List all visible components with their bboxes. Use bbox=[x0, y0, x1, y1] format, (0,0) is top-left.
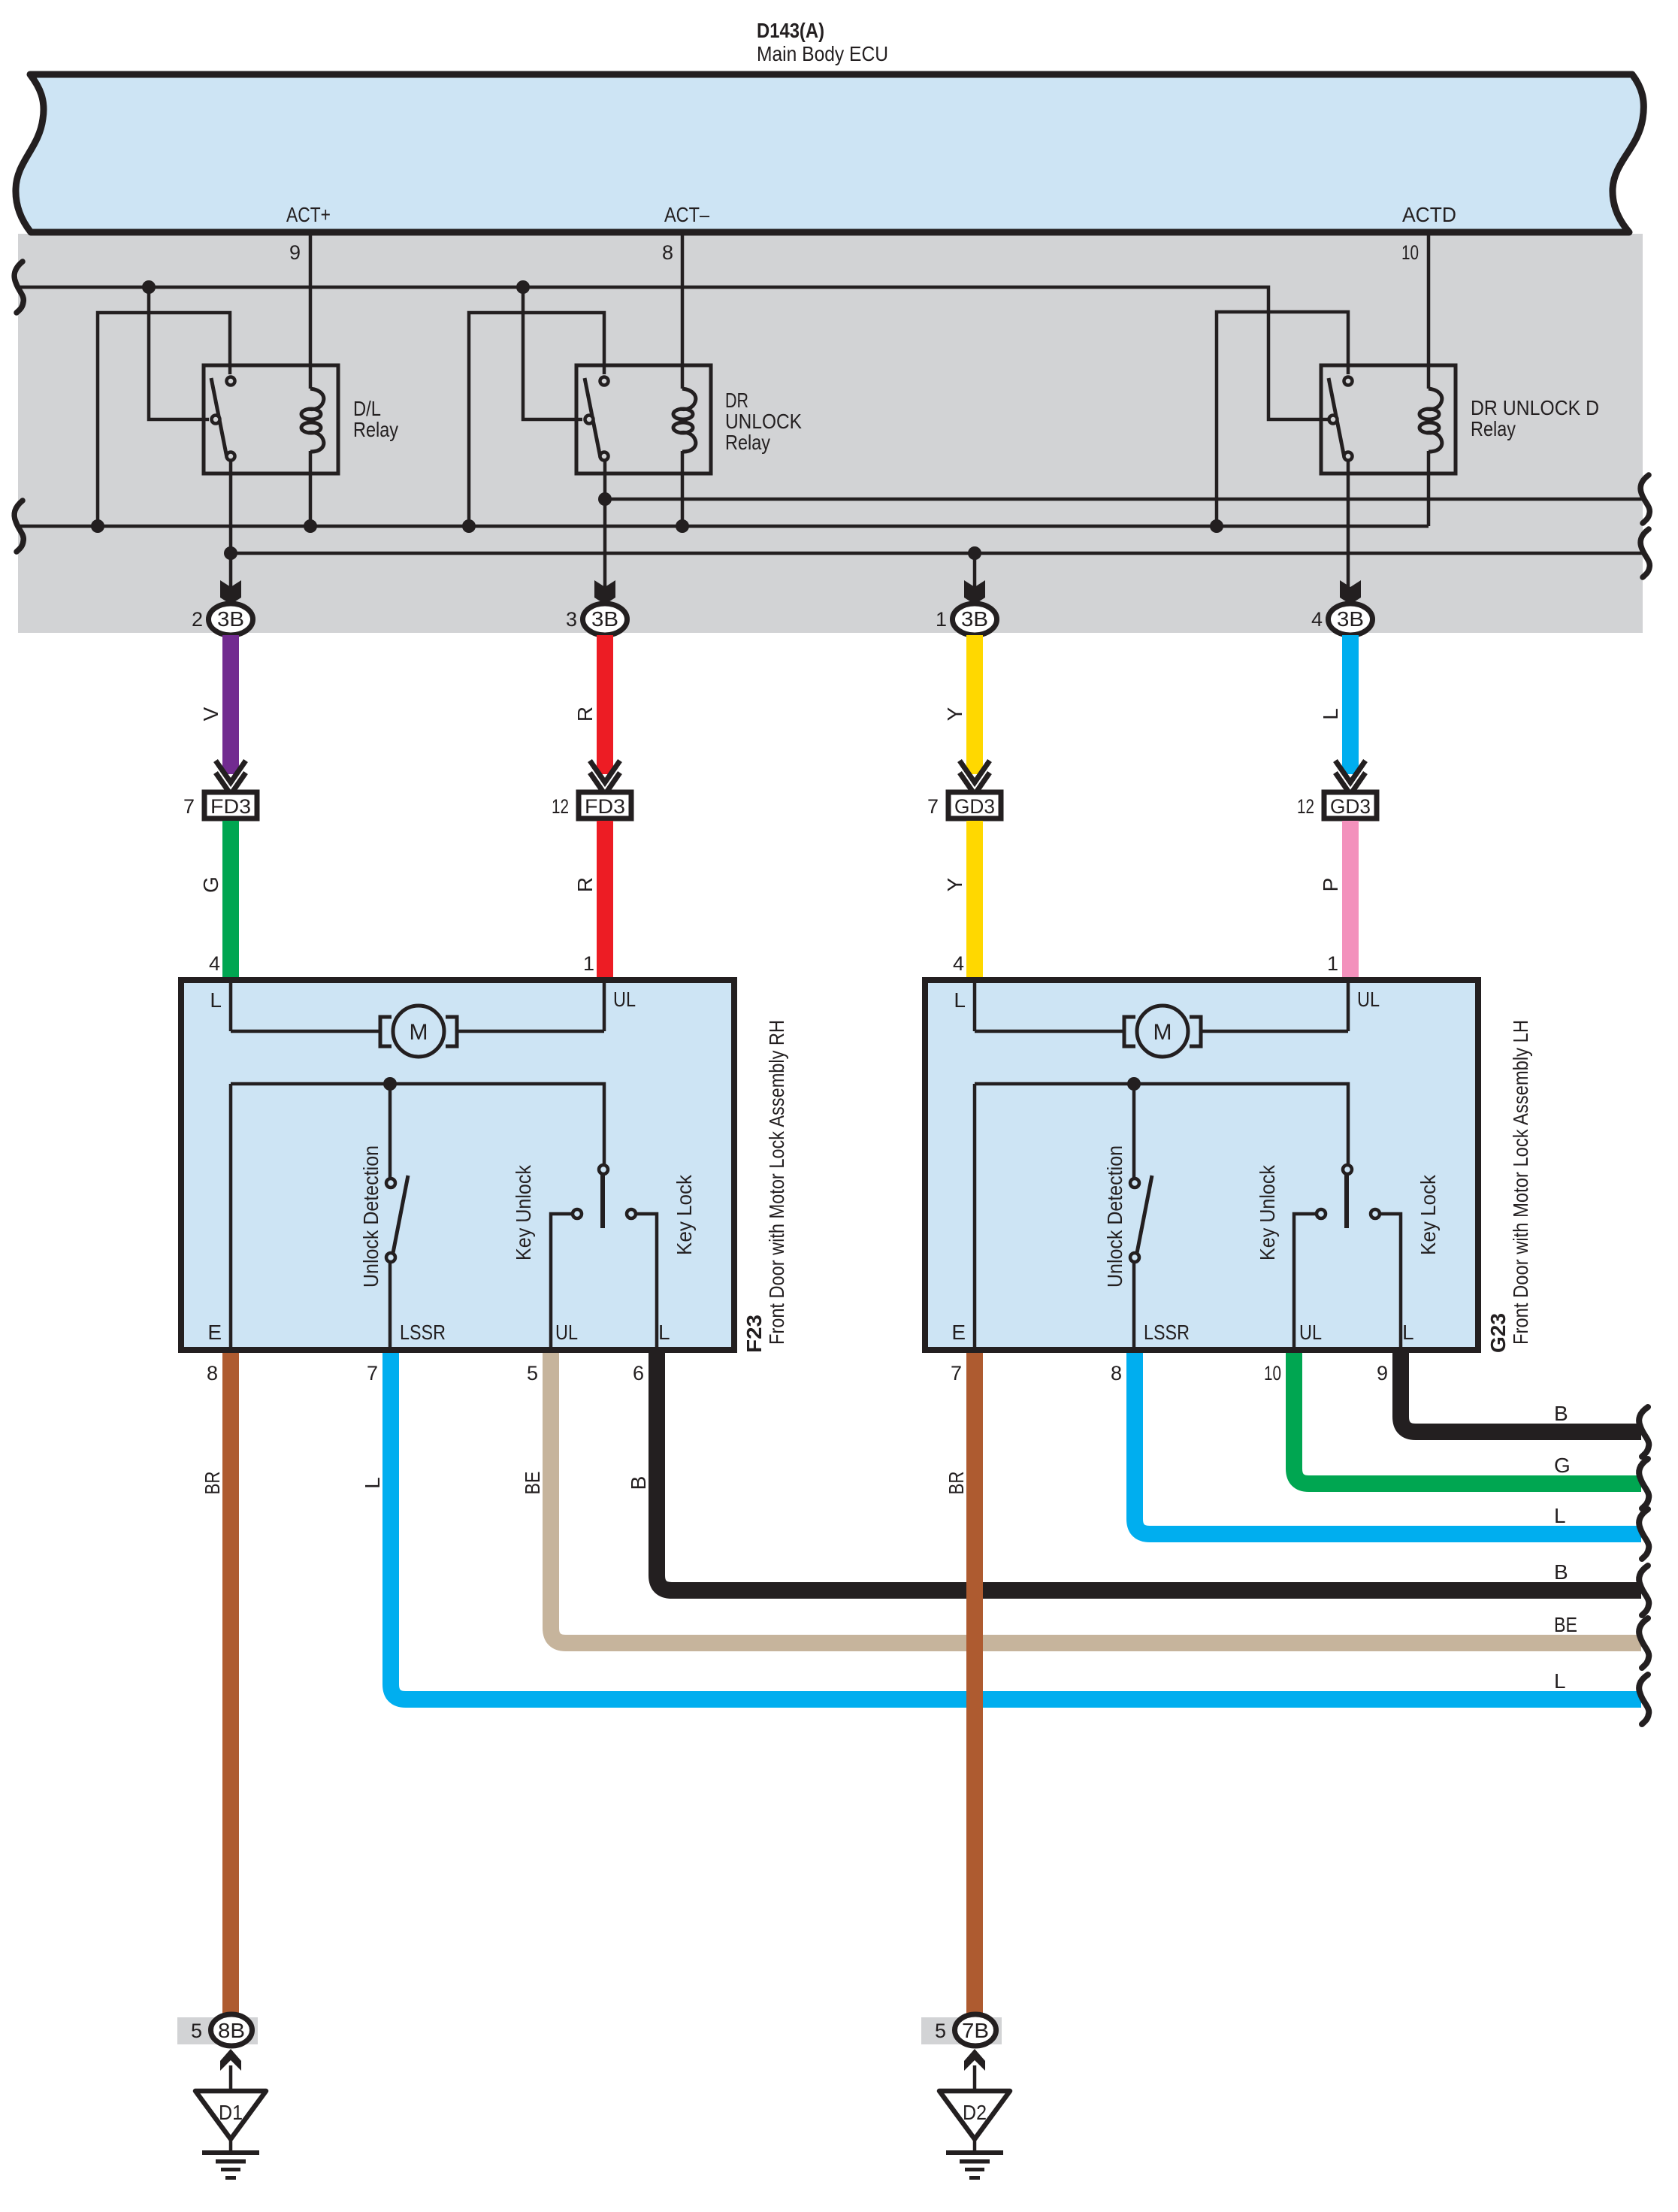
relay DR UNLOCK D bottom contact bbox=[1344, 452, 1353, 461]
svg-text:ACT+: ACT+ bbox=[286, 203, 331, 226]
svg-text:FD3: FD3 bbox=[585, 795, 625, 818]
wire ACT- pin8 to DR UNLOCK relay coil bbox=[681, 234, 685, 389]
connector 12-GD3 bbox=[1297, 761, 1377, 819]
ground bars bbox=[946, 2150, 1003, 2155]
svg-text:8B: 8B bbox=[218, 2019, 245, 2042]
svg-text:BE: BE bbox=[521, 1472, 544, 1495]
wire BR brown F23 pin8 to D1 bbox=[222, 1353, 239, 2014]
svg-text:Key Lock: Key Lock bbox=[1416, 1174, 1440, 1255]
relay DR UNLOCK top contact bbox=[600, 377, 609, 386]
F23 key switch pivot bbox=[599, 1165, 608, 1174]
svg-text:Key Lock: Key Lock bbox=[673, 1174, 696, 1255]
svg-text:5: 5 bbox=[527, 1362, 538, 1384]
svg-text:7: 7 bbox=[951, 1362, 962, 1384]
svg-text:2: 2 bbox=[192, 608, 203, 631]
relay D/L switch arm bbox=[211, 378, 227, 458]
svg-text:10: 10 bbox=[1401, 241, 1419, 264]
wire BE beige F23 pin5 bbox=[551, 1353, 1641, 1643]
wire bus1 bbox=[18, 525, 1429, 528]
relay DR UNLOCK D top contact bbox=[1344, 377, 1353, 386]
arrow chevrons into 3B bbox=[220, 580, 241, 604]
wire D/L top contact loop bbox=[98, 313, 230, 526]
svg-text:BR: BR bbox=[945, 1472, 968, 1495]
svg-text:D2: D2 bbox=[963, 2101, 987, 2124]
relay DR UNLOCK box bbox=[576, 365, 711, 474]
svg-text:V: V bbox=[199, 707, 222, 721]
relay DR UNLOCK coil bbox=[673, 389, 696, 452]
relay DR UNLOCK D switch arm bbox=[1329, 378, 1344, 458]
svg-text:10: 10 bbox=[1264, 1362, 1281, 1384]
svg-text:8: 8 bbox=[1111, 1362, 1122, 1384]
svg-text:R: R bbox=[573, 877, 597, 892]
F23 junction dot switch bus bbox=[383, 1077, 397, 1091]
ECU D143(A) Main Body ECU box bbox=[16, 74, 1643, 232]
connector 2-3B group bbox=[192, 580, 253, 635]
svg-text:Y: Y bbox=[943, 877, 966, 891]
ground stem bbox=[229, 2139, 233, 2150]
up arrow chevron bbox=[220, 2049, 241, 2071]
break squiggles at right wire ends bbox=[1639, 1407, 1649, 1724]
svg-text:Y: Y bbox=[943, 707, 966, 721]
relay DR UNLOCK D mid contact bbox=[1329, 416, 1338, 424]
svg-text:L: L bbox=[1554, 1669, 1566, 1693]
svg-text:Main Body ECU: Main Body ECU bbox=[757, 42, 888, 65]
break squiggle right bus2 bbox=[1640, 529, 1649, 577]
relay D/L mid contact bbox=[212, 416, 220, 424]
svg-text:7B: 7B bbox=[962, 2019, 989, 2042]
relay DR UNLOCK bottom contact bbox=[600, 452, 609, 461]
junction node on top bus at DR UNLOCK bbox=[516, 280, 530, 294]
svg-text:1: 1 bbox=[1327, 952, 1338, 975]
junction node bus1 x413 bbox=[304, 519, 317, 533]
wire DR UNLOCK mid contact feed bbox=[523, 287, 582, 419]
F23 terminal UL stub bbox=[603, 983, 606, 1031]
break squiggle right y664 bbox=[1640, 475, 1649, 523]
F23 E column bbox=[229, 1084, 233, 1350]
connector 7-FD3 bbox=[183, 761, 257, 819]
svg-text:L: L bbox=[1402, 1321, 1414, 1344]
svg-text:G23: G23 bbox=[1486, 1313, 1510, 1353]
svg-text:UL: UL bbox=[555, 1321, 578, 1344]
svg-text:8: 8 bbox=[207, 1362, 218, 1384]
G23 motor wire right bbox=[1201, 1030, 1348, 1033]
ground D1 group bbox=[177, 2014, 266, 2180]
svg-text:7: 7 bbox=[927, 795, 939, 818]
svg-text:8: 8 bbox=[662, 241, 673, 264]
wire P pink GD3 to G23 bbox=[1342, 821, 1359, 977]
svg-text:9: 9 bbox=[289, 241, 301, 264]
junction node on top bus at D/L bbox=[142, 280, 156, 294]
svg-text:GD3: GD3 bbox=[1330, 795, 1371, 818]
wire DR UNLOCK switch output drop bbox=[603, 458, 607, 588]
svg-text:3: 3 bbox=[566, 608, 577, 631]
svg-text:BR: BR bbox=[201, 1472, 224, 1495]
svg-text:7: 7 bbox=[183, 795, 195, 818]
svg-text:L: L bbox=[361, 1477, 384, 1489]
G23 terminal UL stub bbox=[1347, 983, 1350, 1031]
svg-text:Unlock Detection: Unlock Detection bbox=[359, 1145, 382, 1288]
F23 terminal L stub bbox=[229, 983, 233, 1031]
svg-text:D/L: D/L bbox=[353, 397, 381, 420]
relay DR UNLOCK D box bbox=[1321, 365, 1456, 474]
wire DR UNLOCK D switch output drop bbox=[1347, 458, 1350, 588]
gray harness band bbox=[18, 234, 1643, 633]
svg-text:Key Unlock: Key Unlock bbox=[1256, 1164, 1279, 1260]
relay DR UNLOCK D coil bbox=[1419, 389, 1442, 452]
ground bars bbox=[202, 2150, 259, 2155]
relay D/L top contact bbox=[227, 377, 235, 386]
svg-text:L: L bbox=[1554, 1504, 1566, 1527]
F23 unlock detection switch bbox=[389, 1084, 392, 1178]
svg-text:ACTD: ACTD bbox=[1402, 203, 1456, 226]
wire G green FD3 to F23 bbox=[222, 821, 239, 977]
oval 3B bbox=[209, 604, 253, 635]
wire top bus to DR UNLOCK D mid contact bbox=[18, 287, 1328, 419]
wire ACT+ pin9 to D/L relay coil bbox=[309, 234, 313, 389]
wire to ground triangle bbox=[229, 2065, 233, 2091]
wire B black F23 pin6 bbox=[657, 1353, 1641, 1590]
svg-text:Relay: Relay bbox=[353, 418, 398, 441]
svg-text:4: 4 bbox=[1311, 608, 1323, 631]
junction node bus1 x130 bbox=[91, 519, 104, 533]
F23 motor wire left bbox=[231, 1030, 380, 1033]
G23 junction dot switch bus bbox=[1127, 1077, 1141, 1091]
connector 4-3B group bbox=[1311, 580, 1373, 635]
wire DR UNLOCK top contact loop bbox=[469, 313, 604, 526]
wire ACTD pin10 to DR UNLOCK D relay coil bbox=[1427, 234, 1431, 389]
svg-text:Front Door with Motor Lock Ass: Front Door with Motor Lock Assembly RH bbox=[765, 1020, 788, 1345]
oval 8B bbox=[211, 2014, 252, 2046]
svg-text:D143(A): D143(A) bbox=[757, 19, 824, 42]
svg-text:12: 12 bbox=[1297, 795, 1314, 818]
svg-text:L: L bbox=[954, 988, 966, 1012]
svg-text:9: 9 bbox=[1377, 1362, 1388, 1384]
junction node bus2 start bbox=[224, 546, 237, 560]
svg-text:L: L bbox=[1319, 708, 1342, 720]
wire Y yellow 3B to GD3 bbox=[966, 635, 983, 774]
svg-text:4: 4 bbox=[209, 952, 220, 975]
svg-text:FD3: FD3 bbox=[210, 795, 251, 818]
wire D/L mid contact feed bbox=[149, 287, 209, 419]
svg-text:UNLOCK: UNLOCK bbox=[725, 410, 802, 433]
svg-text:R: R bbox=[573, 707, 597, 722]
svg-text:LSSR: LSSR bbox=[400, 1321, 446, 1344]
G23 motor wire left bbox=[975, 1030, 1124, 1033]
svg-text:5: 5 bbox=[191, 2020, 202, 2042]
svg-text:L: L bbox=[210, 988, 222, 1012]
svg-text:UL: UL bbox=[1357, 988, 1380, 1011]
F23 Front Door with Motor Lock Assembly RH box bbox=[181, 980, 734, 1350]
F23 key unlock contact bbox=[573, 1209, 582, 1218]
G23 E column bbox=[973, 1084, 977, 1350]
svg-text:BE: BE bbox=[1554, 1613, 1577, 1636]
wire D/L switch output drop bbox=[229, 458, 233, 588]
wire BR brown G23 pin7 to D2 bbox=[966, 1353, 983, 2014]
relay D/L bottom contact bbox=[227, 452, 235, 461]
wire L cyan G23 pin8 bbox=[1135, 1353, 1641, 1534]
wire B black G23 pin9 bbox=[1401, 1353, 1641, 1432]
wire L cyan 3B to GD3 bbox=[1342, 635, 1359, 774]
relay D/L box bbox=[204, 365, 338, 474]
svg-text:G: G bbox=[199, 876, 222, 893]
G23 key unlock contact bbox=[1317, 1209, 1326, 1218]
svg-text:Front Door with Motor Lock Ass: Front Door with Motor Lock Assembly LH bbox=[1509, 1020, 1532, 1345]
junction node bus2 x1297 bbox=[968, 546, 981, 560]
triangle D2 bbox=[939, 2091, 1010, 2139]
svg-text:Relay: Relay bbox=[725, 431, 770, 454]
svg-text:1: 1 bbox=[583, 952, 594, 975]
G23 unlock detection switch bbox=[1132, 1084, 1136, 1178]
junction node bus1 x1619 bbox=[1210, 519, 1223, 533]
F23 motor wire right bbox=[457, 1030, 604, 1033]
svg-text:4: 4 bbox=[953, 952, 964, 975]
triangle D1 bbox=[195, 2091, 266, 2139]
svg-text:ACT–: ACT– bbox=[664, 203, 709, 226]
svg-text:UL: UL bbox=[613, 988, 636, 1011]
wire L cyan F23 pin7 bbox=[391, 1353, 1641, 1699]
svg-text:LSSR: LSSR bbox=[1144, 1321, 1190, 1344]
break squiggle left top bus bbox=[14, 262, 1649, 577]
svg-text:Unlock Detection: Unlock Detection bbox=[1103, 1145, 1126, 1288]
gray highlight 7B bbox=[921, 2017, 1002, 2044]
svg-text:3B: 3B bbox=[1337, 607, 1364, 631]
svg-text:M: M bbox=[410, 1020, 428, 1045]
wire G green G23 pin10 bbox=[1294, 1353, 1641, 1484]
G23 terminal L stub bbox=[973, 983, 977, 1031]
wire bus2 bbox=[231, 552, 1643, 555]
svg-text:L: L bbox=[658, 1321, 670, 1344]
wire R red 3B to FD3 bbox=[597, 635, 613, 774]
svg-text:7: 7 bbox=[367, 1362, 378, 1384]
relay DR UNLOCK switch arm bbox=[585, 378, 600, 458]
svg-text:UL: UL bbox=[1299, 1321, 1322, 1344]
wire DR UNLOCK coil bottom to bus1 bbox=[681, 451, 685, 526]
svg-text:GD3: GD3 bbox=[954, 795, 995, 818]
svg-text:E: E bbox=[207, 1321, 222, 1344]
ground D2 group bbox=[921, 2014, 1010, 2180]
svg-text:1: 1 bbox=[936, 608, 947, 631]
G23 internal switch bus bbox=[975, 1084, 1348, 1164]
svg-text:F23: F23 bbox=[742, 1315, 766, 1353]
svg-text:DR UNLOCK D: DR UNLOCK D bbox=[1471, 396, 1599, 419]
svg-text:3B: 3B bbox=[217, 607, 244, 631]
svg-text:M: M bbox=[1153, 1020, 1172, 1045]
F23 key lock contact bbox=[627, 1209, 636, 1218]
connector 1-3B group bbox=[936, 580, 997, 635]
F23 internal switch bus bbox=[231, 1084, 604, 1164]
gray highlight 8B bbox=[177, 2017, 258, 2044]
G23 key lock contact bbox=[1371, 1209, 1380, 1218]
svg-text:Key Unlock: Key Unlock bbox=[512, 1164, 535, 1260]
svg-text:6: 6 bbox=[633, 1362, 644, 1384]
svg-text:3B: 3B bbox=[591, 607, 618, 631]
wire DR UNLOCK D top contact loop bbox=[1217, 312, 1348, 526]
F23 motor M bbox=[380, 1006, 457, 1057]
wire D/L relay coil bottom to bus1 bbox=[309, 451, 313, 526]
break squiggle left bus1 bbox=[14, 501, 23, 552]
connector 7-GD3 bbox=[927, 761, 1001, 819]
ground stem bbox=[973, 2139, 977, 2150]
wire DR UNLOCK D coil bottom to bus1 bbox=[1427, 451, 1431, 526]
chevron into FD3 bbox=[216, 761, 246, 794]
connector 3-3B group bbox=[566, 580, 627, 635]
svg-text:3B: 3B bbox=[961, 607, 988, 631]
wire bus2 drop to connector 1-3B bbox=[973, 553, 977, 588]
up arrow chevron bbox=[964, 2049, 985, 2071]
connector 12-FD3 bbox=[552, 761, 631, 819]
svg-text:B: B bbox=[627, 1476, 650, 1490]
junction node y664 start bbox=[598, 492, 612, 506]
svg-text:Relay: Relay bbox=[1471, 417, 1516, 440]
svg-text:P: P bbox=[1319, 878, 1342, 892]
svg-text:12: 12 bbox=[552, 795, 569, 818]
svg-text:5: 5 bbox=[935, 2020, 946, 2042]
oval 7B bbox=[955, 2014, 996, 2046]
G23 key switch pivot bbox=[1343, 1165, 1352, 1174]
junction node bus1 x908 bbox=[676, 519, 689, 533]
svg-text:B: B bbox=[1554, 1402, 1568, 1425]
wire R red FD3 to F23 bbox=[597, 821, 613, 977]
wire DR UNLOCK output bus y664 bbox=[605, 498, 1643, 501]
svg-text:G: G bbox=[1554, 1454, 1571, 1477]
svg-text:E: E bbox=[951, 1321, 966, 1344]
junction node bus1 x624 bbox=[462, 519, 476, 533]
svg-text:DR: DR bbox=[725, 389, 748, 412]
relay D/L coil bbox=[301, 389, 324, 452]
G23 Front Door with Motor Lock Assembly LH box bbox=[925, 980, 1478, 1350]
G23 motor M bbox=[1124, 1006, 1201, 1057]
svg-text:B: B bbox=[1554, 1560, 1568, 1584]
relay DR UNLOCK mid contact bbox=[585, 416, 594, 424]
wire Y yellow GD3 to G23 bbox=[966, 821, 983, 977]
svg-text:D1: D1 bbox=[219, 2101, 243, 2124]
wire to ground triangle bbox=[973, 2065, 977, 2091]
wire V purple 3B to FD3 bbox=[222, 635, 239, 774]
